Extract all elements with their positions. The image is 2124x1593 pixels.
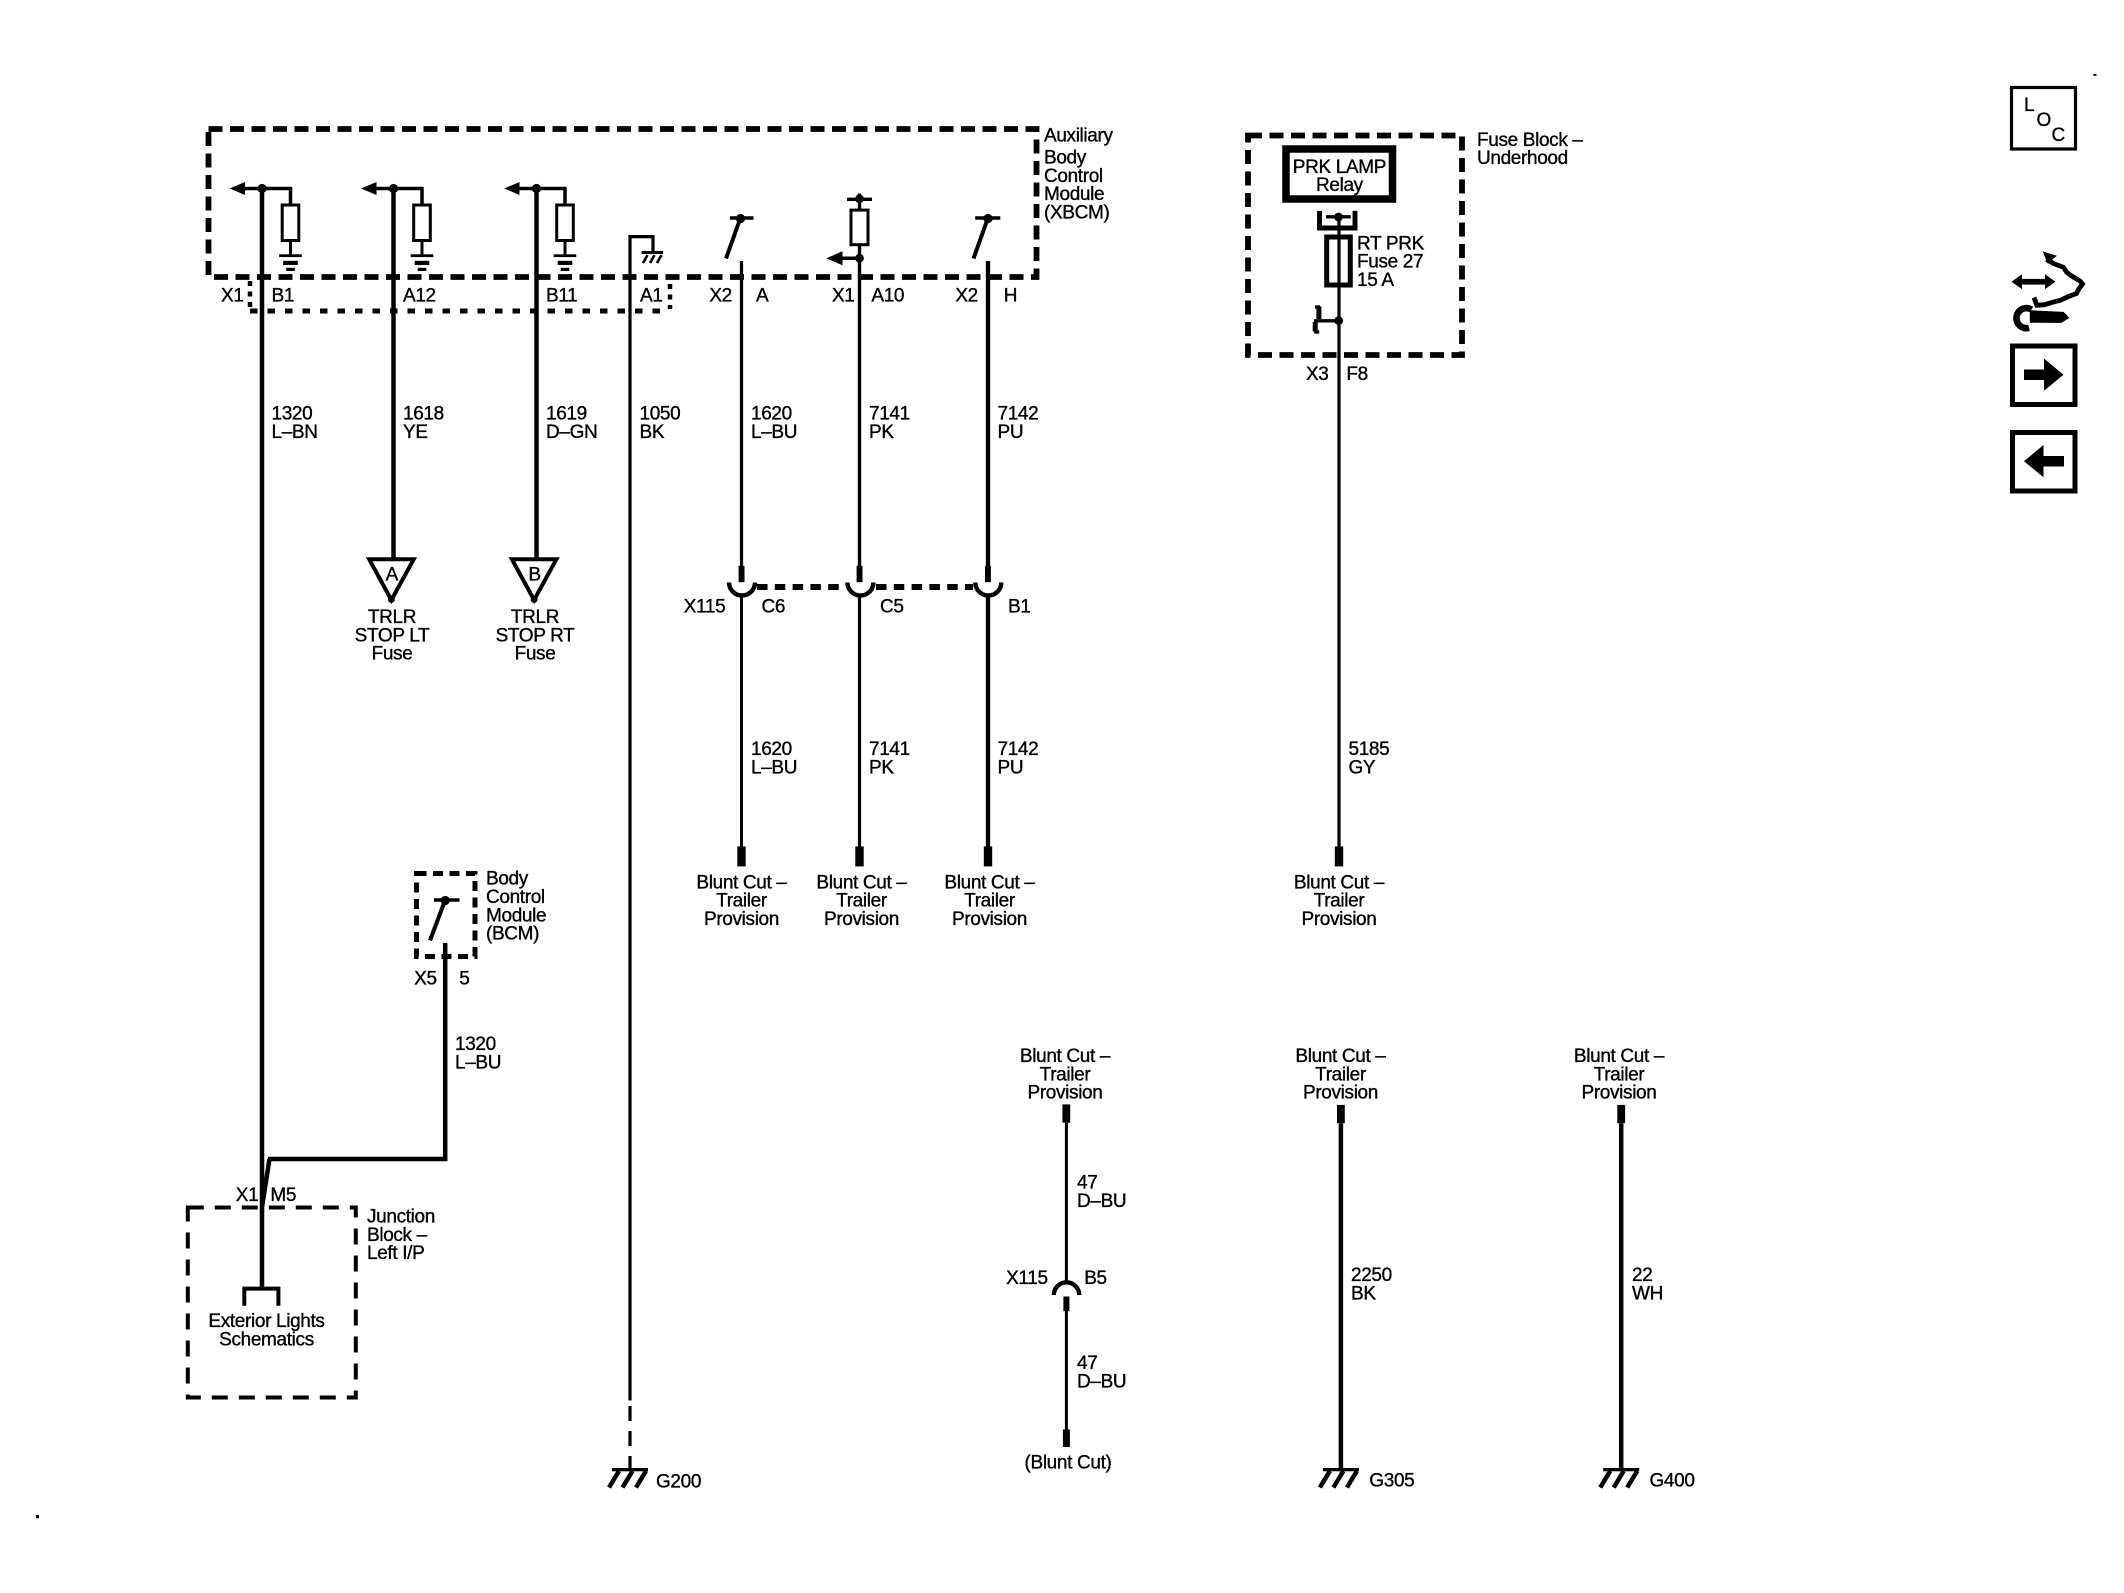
label: Exterior Lights Schematics	[208, 1311, 324, 1350]
label: Blunt Cut - Trailer Provision (5185)	[1294, 872, 1385, 930]
svg-text:L: L	[2024, 95, 2034, 116]
label: TRLR STOP RT Fuse	[496, 607, 576, 665]
wire 1618 YE (A12 to TRLR STOP LT fuse)	[391, 189, 396, 561]
svg-text:Schematics: Schematics	[219, 1330, 314, 1351]
fuse RT PRK Fuse 27 15 A	[1327, 237, 1351, 285]
resistor (A10 pull-up)	[851, 210, 868, 245]
wire 5185 GY (fuse block to blunt cut)	[1337, 356, 1340, 848]
svg-text:Provision: Provision	[1028, 1083, 1103, 1104]
svg-text:PU: PU	[998, 422, 1024, 443]
svg-text:L–BU: L–BU	[751, 422, 797, 443]
label: Blunt Cut - Trailer Provision (1620)	[696, 872, 787, 930]
wire (relay to RT PRK fuse)	[1337, 218, 1340, 288]
svg-text:B1: B1	[272, 285, 295, 306]
icon: wiring tool (double arrow, harness outline, wrench)	[2012, 252, 2083, 329]
svg-text:A1: A1	[640, 285, 663, 306]
svg-text:X5: X5	[414, 968, 437, 989]
module box: Body Control Module (BCM)	[417, 874, 476, 957]
blunt terminal cap (wire 7141 at X115 C5)	[857, 566, 863, 582]
wire 7141 PK (X115 C5 to blunt cut)	[858, 596, 861, 847]
svg-text:D–BU: D–BU	[1077, 1191, 1126, 1212]
svg-text:A: A	[386, 565, 399, 586]
switch (BCM output X5-5)	[430, 896, 460, 941]
blunt terminal cap (wire 47 below B5)	[1063, 1297, 1069, 1312]
node (fuse output bus)	[1334, 316, 1343, 325]
wire 1320 L-BN (B1 to junction block)	[260, 189, 265, 1288]
label: Blunt Cut - Trailer Provision (7142)	[944, 872, 1035, 930]
connector dashed tie C6-C5	[757, 584, 845, 590]
ground G400	[1600, 1468, 1639, 1488]
label: Junction Block - Left I/P	[367, 1207, 435, 1265]
svg-text:B5: B5	[1084, 1268, 1107, 1289]
arrow (output to pin A10)	[826, 251, 842, 265]
svg-text:GY: GY	[1349, 757, 1376, 778]
blunt cut terminal (wire 47 top)	[1062, 1104, 1070, 1122]
svg-text:B1: B1	[1008, 597, 1031, 618]
svg-text:C5: C5	[880, 597, 904, 618]
svg-text:D–BU: D–BU	[1077, 1371, 1126, 1392]
fuse symbol A (TRLR STOP LT Fuse, triangle)	[369, 559, 414, 603]
icon: next arrow button	[2013, 346, 2076, 405]
svg-text:Left I/P: Left I/P	[367, 1243, 424, 1264]
svg-text:Provision: Provision	[1582, 1083, 1657, 1104]
svg-text:PK: PK	[869, 422, 894, 443]
XBCM low-side driver output B1 (arrow, node, resistor, ground)	[230, 182, 302, 271]
bus tap stub (to other circuits)	[1314, 319, 1339, 322]
blunt cut terminal (wire 47 bottom)	[1063, 1430, 1070, 1448]
svg-text:L–BU: L–BU	[751, 757, 797, 778]
svg-text:Provision: Provision	[704, 909, 779, 930]
fuse symbol B (TRLR STOP RT Fuse, triangle)	[512, 559, 557, 603]
svg-text:X3: X3	[1306, 364, 1329, 385]
svg-text:D–GN: D–GN	[546, 422, 597, 443]
svg-text:(XBCM): (XBCM)	[1044, 202, 1109, 223]
ground (XBCM internal, IEC)	[554, 254, 577, 257]
wire (node to resistor branch)	[262, 187, 291, 191]
ground G305	[1320, 1468, 1359, 1488]
svg-text:YE: YE	[403, 422, 428, 443]
icon: back arrow button	[2013, 433, 2076, 492]
wire (fuse to bus node)	[1337, 285, 1340, 356]
svg-text:Provision: Provision	[1302, 909, 1377, 930]
arrow (output to pin B1)	[230, 182, 245, 195]
relay terminal bracket (PRK LAMP Relay output)	[1320, 211, 1356, 228]
connector strip X1 (XBCM) : dotted row under box	[250, 281, 670, 311]
blunt cut terminal (wire 22 top)	[1617, 1105, 1625, 1123]
wire 1619 D-GN (B11 to TRLR STOP RT fuse)	[534, 189, 539, 561]
svg-text:(Blunt Cut): (Blunt Cut)	[1025, 1453, 1112, 1474]
svg-text:Provision: Provision	[824, 909, 899, 930]
svg-text:X2: X2	[709, 285, 732, 306]
wire 1620 L-BU (X115 C6 to blunt cut)	[740, 596, 743, 847]
svg-text:F8: F8	[1346, 364, 1367, 385]
svg-text:L–BN: L–BN	[272, 422, 318, 443]
svg-text:Underhood: Underhood	[1477, 148, 1568, 169]
svg-text:Fuse: Fuse	[515, 644, 556, 665]
wire 1050 BK (A1 to G200)	[628, 330, 631, 1401]
off-page connector (Exterior Lights Schematics)	[244, 1289, 278, 1306]
svg-text:G305: G305	[1369, 1470, 1414, 1491]
connector half X115 B1 (arc)	[975, 583, 1001, 596]
connector half X115 B5 (arc)	[1054, 1282, 1079, 1295]
icon: LOC button	[2012, 88, 2076, 150]
svg-text:C6: C6	[762, 597, 786, 618]
wire (A1 up and over)	[630, 237, 653, 330]
svg-text:5: 5	[459, 968, 469, 989]
ground G200	[609, 1468, 648, 1488]
wire merge slant into main 1320 run	[262, 1159, 270, 1207]
connector half X115 C5 (arc)	[847, 583, 873, 596]
ground (XBCM internal, IEC)	[411, 254, 434, 257]
blunt cut terminal (wire 2250 top)	[1337, 1105, 1345, 1123]
blunt cut terminal (wire 1620)	[737, 846, 745, 866]
svg-text:Fuse: Fuse	[372, 644, 413, 665]
svg-text:Provision: Provision	[1303, 1083, 1378, 1104]
svg-text:X2: X2	[955, 285, 978, 306]
B+ feed and resistor (XBCM output X1-A10)	[826, 194, 872, 266]
relay K (PRK LAMP Relay)	[1286, 149, 1393, 199]
node at B1 driver	[257, 184, 266, 193]
blunt cut terminal (wire 7142)	[984, 846, 992, 866]
svg-text:O: O	[2037, 110, 2051, 131]
svg-text:B: B	[528, 565, 540, 586]
svg-text:L–BU: L–BU	[455, 1053, 501, 1074]
resistor (A12 pull-down)	[414, 205, 431, 241]
XBCM low-side driver output A12 (arrow, node, resistor, ground)	[361, 182, 433, 271]
svg-text:Provision: Provision	[952, 909, 1027, 930]
chassis ground (XBCM internal)	[642, 251, 664, 254]
module box: Fuse Block - Underhood	[1248, 136, 1462, 356]
wire 2250 BK (blunt cut to G305)	[1339, 1123, 1344, 1469]
module box: Auxiliary Body Control Module (XBCM)	[209, 129, 1037, 277]
wire 22 WH (blunt cut to G400)	[1619, 1123, 1624, 1469]
svg-text:A12: A12	[403, 285, 436, 306]
connector half X115 C6 (arc)	[729, 583, 755, 596]
connector dashed tie C5-B1	[876, 584, 973, 590]
wire 7142 PU (X115 B1 to blunt cut)	[986, 596, 990, 847]
blunt cut terminal (wire 7141)	[855, 846, 863, 866]
blunt terminal cap (wire 1620 at X115 C6)	[739, 566, 745, 582]
resistor (B11 pull-down)	[557, 205, 574, 241]
svg-text:G200: G200	[656, 1472, 701, 1493]
svg-text:G400: G400	[1650, 1470, 1695, 1491]
label: Blunt Cut - Trailer Provision (7141)	[816, 872, 907, 930]
svg-text:X115: X115	[1006, 1268, 1048, 1289]
label: Blunt Cut - Trailer Provision (2250 BK column)	[1295, 1046, 1386, 1104]
svg-text:PK: PK	[869, 757, 894, 778]
module box: Junction Block - Left I/P	[188, 1208, 356, 1398]
wire 7142 PU (X2-H to X115 B1)	[986, 261, 990, 567]
wire 47 D-BU (blunt cut to X115 B5)	[1065, 1123, 1068, 1282]
svg-text:X115: X115	[684, 597, 726, 618]
ground (XBCM internal, IEC)	[279, 254, 302, 257]
svg-text:Relay: Relay	[1316, 175, 1364, 196]
label: TRLR STOP LT Fuse	[355, 607, 430, 665]
svg-text:(BCM): (BCM)	[486, 924, 539, 945]
XBCM internal ground jog for pin A1	[630, 237, 663, 330]
svg-text:PU: PU	[998, 757, 1024, 778]
svg-text:15 A: 15 A	[1357, 270, 1394, 291]
switch (XBCM output X2-H)	[974, 214, 1001, 259]
connector X115 row (C6 / C5 / B1)	[729, 566, 1001, 596]
node at A10 driver	[855, 254, 864, 263]
speck (scan artifact, top right)	[2093, 74, 2096, 76]
svg-text:X1: X1	[832, 285, 855, 306]
switch (XBCM output X2-A)	[726, 214, 754, 259]
svg-text:A: A	[756, 285, 769, 306]
svg-text:B11: B11	[546, 285, 577, 306]
svg-text:X1: X1	[236, 1185, 259, 1206]
svg-text:C: C	[2052, 125, 2065, 146]
label: Blunt Cut - Trailer Provision (47 D-BU column)	[1020, 1046, 1111, 1104]
label: Body Control Module (BCM)	[486, 869, 546, 945]
resistor (B1 pull-down)	[282, 205, 299, 241]
svg-text:H: H	[1004, 285, 1017, 306]
svg-text:M5: M5	[270, 1185, 296, 1206]
wire 1320 L-BU (BCM to junction block)	[268, 943, 445, 1159]
svg-text:BK: BK	[1351, 1283, 1376, 1304]
label: Auxiliary Body Control Module (XBCM)	[1044, 125, 1113, 223]
svg-text:Auxiliary: Auxiliary	[1044, 125, 1113, 146]
wire 7141 PK (A10 to X115 C5)	[858, 262, 861, 567]
wire 1620 L-BU (X2-A to X115 C6)	[740, 261, 743, 567]
wire 47 D-BU (B5 to blunt cut)	[1065, 1311, 1068, 1430]
svg-text:WH: WH	[1632, 1283, 1663, 1304]
wire (resistor to ground)	[289, 241, 292, 256]
blunt cut terminal (wire 5185)	[1335, 846, 1343, 866]
node (relay to fuse)	[1334, 213, 1343, 222]
svg-text:BK: BK	[640, 422, 665, 443]
label: Blunt Cut - Trailer Provision (22 WH column)	[1574, 1046, 1665, 1104]
speck (scan artifact, bottom left)	[36, 1515, 39, 1518]
XBCM low-side driver output B11 (arrow, node, resistor, ground)	[504, 182, 576, 271]
svg-text:A10: A10	[871, 285, 904, 306]
svg-text:X1: X1	[221, 285, 244, 306]
blunt terminal cap (wire 7142 at X115 B1)	[985, 566, 991, 582]
